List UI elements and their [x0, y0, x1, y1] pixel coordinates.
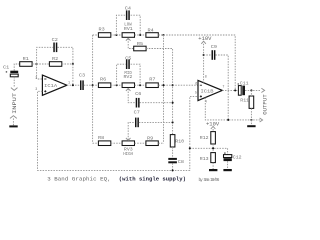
- svg-text:R5: R5: [137, 41, 144, 47]
- capacitor C2: [52, 37, 59, 52]
- input ground pin chevron: [10, 116, 17, 119]
- wire node A to R2: [37, 63, 50, 65]
- resistor R3: [98, 26, 110, 37]
- capacitor C5: [125, 55, 132, 69]
- wire node A down to IC1A inverting input: [37, 64, 43, 79]
- potentiometer RV2: [122, 71, 134, 91]
- capacitor C4: [125, 6, 132, 20]
- junction output/feedback: [72, 84, 74, 86]
- svg-text:C11: C11: [240, 80, 249, 86]
- junction bias riser: [189, 147, 191, 149]
- +10V supply symbol (top): [198, 36, 211, 44]
- wire node A up and over to C2: [37, 47, 54, 64]
- svg-text:R8: R8: [98, 135, 105, 141]
- resistor R1: [20, 56, 32, 67]
- wire RV3 wiper up to C7: [128, 122, 135, 140]
- ground line chevron (output ground pin): [260, 118, 263, 122]
- ground bar (R13): [209, 169, 217, 171]
- left bus vertical: [92, 35, 94, 143]
- wire RV2 wiper to C6: [128, 89, 135, 103]
- svg-text:C9: C9: [211, 44, 218, 50]
- capacitor C8: [168, 158, 184, 165]
- svg-text:C7: C7: [134, 110, 141, 116]
- svg-text:OUTPUT: OUTPUT: [262, 94, 268, 115]
- wire C3 to left bus: [84, 84, 93, 86]
- resistor R4: [146, 27, 158, 37]
- potentiometer RV3: [122, 138, 134, 157]
- wire R9 to right bus bottom: [158, 142, 163, 144]
- svg-text:IC1A: IC1A: [44, 83, 57, 89]
- svg-text:R4: R4: [148, 27, 155, 33]
- node A junction: [36, 63, 38, 65]
- junction C7 column: [172, 121, 174, 123]
- resistor R2: [49, 56, 61, 66]
- OUTPUT net label: [262, 94, 268, 115]
- wire RV3 to R9: [135, 142, 146, 144]
- capacitor C4 bridge wires: [116, 15, 140, 35]
- junction R11/ground: [250, 119, 252, 121]
- input signal pin chevron: [11, 88, 18, 91]
- title text: [47, 175, 220, 183]
- svg-text:C3: C3: [79, 73, 86, 79]
- op-amp IC1B: [195, 75, 225, 104]
- resistor R12: [200, 132, 216, 144]
- svg-text:C6: C6: [135, 91, 142, 97]
- capacitor C3: [79, 73, 86, 90]
- wire C1 bottom to input pin: [13, 77, 15, 88]
- capacitor C11: [237, 80, 249, 95]
- resistor R8: [98, 135, 111, 146]
- svg-text:R9: R9: [147, 136, 154, 142]
- wire C12 to ground: [227, 161, 229, 169]
- junction feedback/output: [234, 89, 236, 91]
- capacitor C1: [3, 65, 18, 77]
- wire RV2 to R7: [135, 84, 146, 86]
- wire IC1A output to C3: [67, 84, 80, 86]
- ground symbol near R11: [247, 120, 255, 127]
- svg-text:R6: R6: [100, 76, 107, 82]
- ground bar (input): [9, 125, 17, 127]
- svg-text:by Sam 19/06: by Sam 19/06: [199, 178, 220, 183]
- resistor R5: [134, 41, 146, 51]
- wire to IC1B inverting input: [173, 84, 198, 86]
- capacitor C5 bridge wires: [117, 64, 141, 85]
- capacitor C9: [211, 44, 218, 60]
- wire input ground stem: [12, 118, 14, 125]
- junction R11 top: [250, 89, 252, 91]
- wire R7 to right bus and on to IC1B: [158, 84, 172, 86]
- wire R5 to IC1B inverting column: [146, 49, 173, 135]
- svg-text:IC1B: IC1B: [201, 88, 214, 94]
- svg-text:2: 2: [35, 76, 37, 80]
- svg-text:INPUT: INPUT: [12, 93, 18, 114]
- junction RV2 left: [116, 84, 118, 86]
- feedback wire top bus to output node: [164, 35, 236, 90]
- node B junction: [72, 63, 74, 65]
- junction RV2 right: [139, 84, 141, 86]
- junction R12/R13: [212, 147, 214, 149]
- resistor R10: [170, 135, 184, 147]
- junction C9 tap: [203, 54, 205, 56]
- right bus vertical: [163, 35, 165, 143]
- wire +10V down to IC1B pin 8: [203, 44, 205, 83]
- svg-text:C2: C2: [52, 37, 59, 43]
- junction C9/ground: [227, 119, 229, 121]
- svg-text:C1: C1: [3, 65, 10, 71]
- svg-text:R13: R13: [200, 156, 209, 162]
- wire R3 to RV1 left node: [111, 34, 122, 36]
- svg-text:R12: R12: [200, 135, 209, 141]
- wire R4 to right bus: [158, 34, 163, 36]
- capacitor C6: [135, 91, 142, 108]
- svg-text:3 Band Graphic EQ,: 3 Band Graphic EQ,: [47, 175, 111, 182]
- wire C8 to bias line: [172, 163, 174, 170]
- svg-text:R10: R10: [175, 139, 184, 145]
- capacitor C7: [134, 110, 141, 128]
- wire node B down to output: [72, 64, 74, 85]
- svg-text:(with single supply): (with single supply): [119, 175, 186, 182]
- junction right bus top: [162, 34, 164, 36]
- wire R6 to RV2: [111, 84, 122, 86]
- svg-text:C12: C12: [233, 154, 242, 160]
- junction left bus / C3: [92, 84, 94, 86]
- wire C11 to output pin: [245, 89, 261, 91]
- wire IC1A + input down to bias line L1: [38, 91, 199, 170]
- resistor R6: [98, 76, 110, 87]
- svg-text:5: 5: [195, 92, 197, 96]
- svg-text:R2: R2: [52, 56, 59, 62]
- junction inverting column mid: [172, 84, 174, 86]
- wire R1 to node A: [32, 63, 37, 65]
- +10V supply symbol (bottom): [206, 122, 219, 132]
- junction C8 / L1: [172, 169, 174, 171]
- svg-text:C5: C5: [125, 55, 132, 61]
- wire R8 to RV3: [111, 142, 122, 144]
- svg-text:C8: C8: [178, 159, 185, 165]
- resistor R11: [240, 90, 253, 120]
- wire left bus to R6: [93, 84, 99, 86]
- junction RV1 right: [139, 34, 141, 36]
- wire IC1B pin 4 to ground line: [205, 98, 261, 120]
- capacitor C12: [224, 152, 242, 161]
- bias line from L1 riser to C12: [190, 148, 228, 154]
- svg-text:6: 6: [195, 82, 197, 86]
- junction C6 column: [172, 102, 174, 104]
- wire C6 to IC1B inverting column: [140, 102, 173, 104]
- resistor R13: [200, 153, 216, 163]
- wire RV1 to R4: [135, 34, 146, 36]
- wire left bus to R3: [93, 34, 99, 36]
- svg-text:R1: R1: [23, 56, 30, 62]
- ground bar (C12): [223, 169, 231, 171]
- output signal pin chevron: [261, 88, 264, 92]
- wire IC1B output to C11: [222, 89, 238, 91]
- resistor R9: [146, 136, 158, 146]
- svg-text:RV2: RV2: [124, 74, 133, 80]
- junction right bus mid: [162, 84, 164, 86]
- svg-text:3: 3: [35, 88, 37, 92]
- wire R2 to node B: [62, 63, 73, 65]
- wire left bus to R8: [93, 142, 99, 144]
- junction RV1 left: [115, 34, 117, 36]
- wire C2 to node B: [58, 47, 73, 64]
- INPUT net label: [12, 93, 18, 114]
- potentiometer RV1: [122, 23, 134, 41]
- svg-text:+10V: +10V: [198, 36, 211, 42]
- svg-text:R7: R7: [149, 76, 156, 82]
- svg-text:R11: R11: [240, 98, 249, 104]
- wire R13 to ground: [212, 163, 214, 169]
- wire +10V to C9: [204, 54, 212, 56]
- wire R12 to bias node: [212, 144, 214, 153]
- svg-text:8: 8: [205, 75, 207, 79]
- wire C7 to IC1B inverting column: [139, 121, 173, 123]
- svg-text:R3: R3: [99, 26, 106, 32]
- wire C9 right down to ground line: [215, 55, 228, 120]
- svg-text:HIGH: HIGH: [123, 152, 133, 157]
- wire C1 top to R1: [14, 64, 20, 71]
- svg-text:RV1: RV1: [124, 26, 133, 32]
- resistor R7: [146, 76, 158, 87]
- op-amp IC1A: [35, 75, 70, 95]
- wire RV1 wiper to R5: [128, 39, 134, 49]
- svg-text:7: 7: [222, 86, 224, 90]
- svg-text:C4: C4: [125, 6, 132, 12]
- wire R10 to C8: [172, 147, 174, 158]
